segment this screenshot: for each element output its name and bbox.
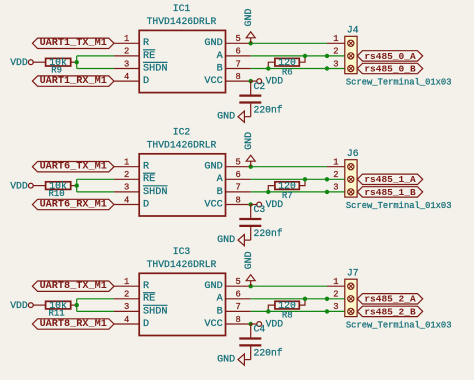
svg-text:SHDN: SHDN bbox=[143, 306, 167, 317]
connector J4 Screw_Terminal_01x03 bbox=[345, 24, 452, 87]
junction B at connector bbox=[325, 309, 329, 313]
svg-text:SHDN: SHDN bbox=[143, 63, 167, 74]
ground GND (capacitor C2) bbox=[217, 111, 251, 122]
pin 1 R of IC3 bbox=[114, 277, 149, 292]
svg-text:rs485_2_B: rs485_2_B bbox=[364, 306, 416, 317]
wire A net bbox=[251, 298, 345, 300]
svg-text:220nf: 220nf bbox=[254, 105, 283, 116]
svg-text:GND: GND bbox=[244, 8, 255, 26]
pin 1 of J7 bbox=[327, 277, 354, 289]
hierarchical label rs485_2_B bbox=[357, 306, 422, 317]
svg-text:D: D bbox=[143, 76, 149, 87]
svg-text:B: B bbox=[217, 187, 223, 198]
pin 6 A of IC2 bbox=[217, 170, 251, 185]
svg-text:RE: RE bbox=[143, 51, 155, 62]
svg-text:R7: R7 bbox=[282, 191, 293, 201]
wire junction vertical bbox=[76, 56, 78, 69]
ground GND (capacitor C3) bbox=[217, 235, 251, 246]
junction pullup node bbox=[75, 183, 79, 187]
junction A at connector bbox=[325, 54, 329, 58]
resistor R8 120 bbox=[268, 299, 305, 321]
connector J6 Screw_Terminal_01x03 bbox=[345, 148, 452, 211]
junction R6 right bbox=[303, 54, 307, 58]
svg-text:GND: GND bbox=[217, 354, 235, 365]
svg-text:IC1: IC1 bbox=[173, 3, 191, 14]
pin 5 GND of IC1 bbox=[204, 34, 250, 49]
svg-text:J6: J6 bbox=[347, 148, 359, 159]
svg-text:Screw_Terminal_01x03: Screw_Terminal_01x03 bbox=[346, 201, 452, 211]
wire VDD to R9 bbox=[33, 61, 46, 63]
pin 1 R of IC2 bbox=[114, 158, 149, 173]
svg-text:6: 6 bbox=[235, 47, 240, 57]
svg-text:UART6_TX_M1: UART6_TX_M1 bbox=[40, 162, 107, 173]
pin 3 of J7 bbox=[333, 302, 354, 314]
svg-text:THVD1426DRLR: THVD1426DRLR bbox=[147, 259, 217, 270]
pin 1 R of IC1 bbox=[114, 34, 149, 49]
svg-text:2: 2 bbox=[333, 170, 338, 180]
wire pin5 GND to J6 pin1 bbox=[251, 166, 327, 168]
svg-text:rs485_1_A: rs485_1_A bbox=[364, 174, 416, 185]
svg-text:B: B bbox=[217, 63, 223, 74]
junction VCC node bbox=[249, 79, 253, 83]
svg-text:B: B bbox=[217, 306, 223, 317]
pin 1 of J4 bbox=[327, 34, 354, 46]
svg-text:A: A bbox=[217, 174, 224, 185]
op-amp body IC2 THVD1426DRLR bbox=[139, 127, 225, 216]
svg-text:6: 6 bbox=[235, 170, 240, 180]
pin 6 A of IC3 bbox=[217, 290, 251, 305]
junction VCC node bbox=[249, 202, 253, 206]
wire junction vertical bbox=[76, 299, 78, 312]
svg-text:2: 2 bbox=[124, 170, 129, 180]
svg-text:1: 1 bbox=[333, 158, 338, 168]
svg-text:VCC: VCC bbox=[204, 199, 222, 210]
pin 3 SHDN of IC2 bbox=[114, 183, 168, 198]
power VDD (left, IC3 block) bbox=[10, 300, 33, 311]
wire to pin 2 RE bbox=[77, 178, 114, 180]
svg-text:R9: R9 bbox=[51, 66, 62, 76]
hierarchical label UART1_TX_M1 bbox=[32, 38, 114, 49]
svg-text:C2: C2 bbox=[254, 81, 266, 92]
svg-text:R: R bbox=[143, 38, 149, 49]
svg-text:4: 4 bbox=[124, 315, 129, 325]
svg-text:A: A bbox=[217, 294, 224, 305]
svg-text:1: 1 bbox=[124, 158, 129, 168]
resistor R9 10k bbox=[46, 57, 77, 75]
wire VDD to R10 bbox=[33, 185, 46, 187]
power VDD (pin 8 node) bbox=[251, 318, 284, 329]
svg-text:8: 8 bbox=[235, 315, 240, 325]
wire to pin 2 RE bbox=[77, 55, 114, 57]
wire to pin 2 RE bbox=[77, 298, 114, 300]
svg-text:220nf: 220nf bbox=[254, 228, 283, 239]
svg-text:rs485_1_B: rs485_1_B bbox=[364, 187, 416, 198]
junction pullup node bbox=[75, 60, 79, 64]
svg-text:8: 8 bbox=[235, 72, 240, 82]
svg-text:RE: RE bbox=[143, 174, 155, 185]
pin 3 SHDN of IC1 bbox=[114, 59, 168, 74]
svg-text:UART1_TX_M1: UART1_TX_M1 bbox=[40, 38, 107, 49]
capacitor C3 220nf bbox=[239, 204, 282, 240]
svg-text:VDD: VDD bbox=[266, 76, 284, 87]
resistor R10 10k bbox=[46, 181, 77, 199]
power VDD (left, IC1 block) bbox=[10, 57, 33, 68]
svg-text:2: 2 bbox=[333, 290, 338, 300]
svg-text:rs485_0_A: rs485_0_A bbox=[364, 51, 416, 62]
svg-text:VCC: VCC bbox=[204, 76, 222, 87]
svg-text:3: 3 bbox=[124, 59, 129, 69]
svg-text:GND: GND bbox=[244, 132, 255, 150]
pin 2 RE of IC1 bbox=[114, 47, 155, 62]
wire A net bbox=[251, 55, 345, 57]
pin 2 RE of IC2 bbox=[114, 170, 155, 185]
pin 3 SHDN of IC3 bbox=[114, 302, 168, 317]
ground GND (pin 5 node) bbox=[244, 251, 255, 288]
junction B at connector bbox=[325, 66, 329, 70]
svg-text:GND: GND bbox=[217, 112, 235, 123]
svg-text:UART8_RX_M1: UART8_RX_M1 bbox=[40, 319, 107, 330]
wire pin5 GND to J4 pin1 bbox=[251, 42, 327, 44]
pin 2 of J6 bbox=[333, 170, 354, 182]
svg-text:UART1_RX_M1: UART1_RX_M1 bbox=[40, 76, 107, 87]
svg-text:rs485_2_A: rs485_2_A bbox=[364, 294, 416, 305]
power VDD (pin 8 node) bbox=[251, 199, 284, 210]
svg-text:6: 6 bbox=[235, 290, 240, 300]
power VDD (pin 8 node) bbox=[251, 76, 284, 87]
svg-text:C4: C4 bbox=[254, 324, 266, 335]
svg-text:R: R bbox=[143, 281, 149, 292]
svg-text:R10: R10 bbox=[48, 189, 64, 199]
ground GND (pin 5 node) bbox=[244, 8, 255, 45]
resistor R11 10k bbox=[46, 300, 77, 318]
svg-text:J4: J4 bbox=[347, 24, 359, 35]
svg-text:VDD: VDD bbox=[10, 300, 28, 311]
junction R8 left bbox=[266, 309, 270, 313]
wire pin5 GND to J7 pin1 bbox=[251, 285, 327, 287]
svg-text:VDD: VDD bbox=[266, 318, 284, 329]
pin 1 of J6 bbox=[327, 158, 354, 170]
svg-text:4: 4 bbox=[124, 72, 129, 82]
wire junction vertical bbox=[76, 179, 78, 192]
hierarchical label UART8_RX_M1 bbox=[32, 319, 114, 330]
hierarchical label UART6_RX_M1 bbox=[32, 199, 114, 210]
hierarchical label rs485_1_A bbox=[357, 174, 422, 185]
svg-text:GND: GND bbox=[204, 281, 222, 292]
svg-text:GND: GND bbox=[244, 251, 255, 269]
svg-text:8: 8 bbox=[235, 195, 240, 205]
svg-text:rs485_0_B: rs485_0_B bbox=[364, 63, 416, 74]
pin 5 GND of IC2 bbox=[204, 158, 250, 173]
power VDD (left, IC2 block) bbox=[10, 180, 33, 191]
ground GND (pin 5 node) bbox=[244, 132, 255, 169]
resistor R6 120 bbox=[268, 56, 305, 78]
wire B net bbox=[251, 191, 345, 193]
pin 7 B of IC3 bbox=[217, 302, 251, 317]
svg-text:5: 5 bbox=[235, 158, 240, 168]
hierarchical label rs485_0_A bbox=[357, 51, 422, 62]
pin 8 VCC of IC2 bbox=[204, 195, 250, 210]
pin 6 A of IC1 bbox=[217, 47, 251, 62]
svg-text:Screw_Terminal_01x03: Screw_Terminal_01x03 bbox=[346, 321, 452, 331]
svg-text:C3: C3 bbox=[254, 204, 266, 215]
svg-text:IC2: IC2 bbox=[173, 127, 191, 138]
svg-text:D: D bbox=[143, 319, 149, 330]
pin 2 RE of IC3 bbox=[114, 290, 155, 305]
junction R7 right bbox=[303, 177, 307, 181]
pin 7 B of IC1 bbox=[217, 59, 251, 74]
resistor R7 120 bbox=[268, 179, 305, 201]
svg-text:5: 5 bbox=[235, 34, 240, 44]
svg-text:D: D bbox=[143, 199, 149, 210]
pin 7 B of IC2 bbox=[217, 183, 251, 198]
wire B net bbox=[251, 310, 345, 312]
svg-text:2: 2 bbox=[333, 47, 338, 57]
svg-text:220nf: 220nf bbox=[254, 347, 283, 358]
svg-text:7: 7 bbox=[235, 59, 240, 69]
svg-text:GND: GND bbox=[204, 38, 222, 49]
junction R7 left bbox=[266, 190, 270, 194]
svg-text:3: 3 bbox=[333, 302, 338, 312]
junction VCC node bbox=[249, 322, 253, 326]
svg-text:R11: R11 bbox=[48, 308, 64, 318]
svg-text:VCC: VCC bbox=[204, 319, 222, 330]
svg-text:IC3: IC3 bbox=[173, 246, 191, 257]
svg-text:7: 7 bbox=[235, 183, 240, 193]
pin 8 VCC of IC3 bbox=[204, 315, 250, 330]
wire to pin 3 SHDN bbox=[77, 191, 114, 193]
svg-text:THVD1426DRLR: THVD1426DRLR bbox=[147, 16, 217, 27]
svg-text:A: A bbox=[217, 51, 224, 62]
hierarchical label rs485_0_B bbox=[357, 63, 422, 74]
junction R8 right bbox=[303, 297, 307, 301]
junction A at connector bbox=[325, 297, 329, 301]
capacitor C2 220nf bbox=[239, 81, 282, 117]
pin 3 of J6 bbox=[333, 183, 354, 195]
hierarchical label UART8_TX_M1 bbox=[32, 281, 114, 292]
wire VDD to R11 bbox=[33, 304, 46, 306]
pin 4 D of IC2 bbox=[114, 195, 149, 210]
svg-text:SHDN: SHDN bbox=[143, 187, 167, 198]
connector J7 Screw_Terminal_01x03 bbox=[345, 267, 452, 330]
pin 4 D of IC1 bbox=[114, 72, 149, 87]
svg-text:3: 3 bbox=[333, 59, 338, 69]
hierarchical label rs485_2_A bbox=[357, 294, 422, 305]
svg-text:R6: R6 bbox=[282, 67, 293, 77]
svg-text:RE: RE bbox=[143, 294, 155, 305]
svg-text:3: 3 bbox=[124, 183, 129, 193]
svg-text:1: 1 bbox=[124, 277, 129, 287]
svg-text:VDD: VDD bbox=[10, 57, 28, 68]
svg-text:VDD: VDD bbox=[266, 199, 284, 210]
pin 2 of J7 bbox=[333, 290, 354, 302]
ground GND (capacitor C4) bbox=[217, 354, 251, 365]
capacitor C4 220nf bbox=[239, 324, 282, 360]
svg-text:J7: J7 bbox=[347, 267, 359, 278]
svg-text:R: R bbox=[143, 162, 149, 173]
svg-text:GND: GND bbox=[204, 162, 222, 173]
wire B net bbox=[251, 68, 345, 70]
svg-text:2: 2 bbox=[124, 290, 129, 300]
svg-text:R8: R8 bbox=[282, 310, 293, 320]
pin 8 VCC of IC1 bbox=[204, 72, 250, 87]
op-amp body IC1 THVD1426DRLR bbox=[139, 3, 225, 92]
svg-text:Screw_Terminal_01x03: Screw_Terminal_01x03 bbox=[346, 78, 452, 88]
pin 4 D of IC3 bbox=[114, 315, 149, 330]
svg-text:1: 1 bbox=[333, 34, 338, 44]
svg-text:UART8_TX_M1: UART8_TX_M1 bbox=[40, 281, 107, 292]
junction pullup node bbox=[75, 303, 79, 307]
pin 3 of J4 bbox=[333, 59, 354, 71]
junction A at connector bbox=[325, 177, 329, 181]
svg-text:4: 4 bbox=[124, 195, 129, 205]
svg-text:5: 5 bbox=[235, 277, 240, 287]
svg-text:THVD1426DRLR: THVD1426DRLR bbox=[147, 140, 217, 151]
pin 2 of J4 bbox=[333, 47, 354, 59]
svg-text:3: 3 bbox=[333, 183, 338, 193]
op-amp body IC3 THVD1426DRLR bbox=[139, 246, 225, 335]
svg-text:7: 7 bbox=[235, 302, 240, 312]
wire A net bbox=[251, 178, 345, 180]
wire to pin 3 SHDN bbox=[77, 68, 114, 70]
junction B at connector bbox=[325, 190, 329, 194]
hierarchical label UART1_RX_M1 bbox=[32, 76, 114, 87]
svg-text:3: 3 bbox=[124, 302, 129, 312]
svg-text:1: 1 bbox=[333, 277, 338, 287]
pin 5 GND of IC3 bbox=[204, 277, 250, 292]
svg-text:2: 2 bbox=[124, 47, 129, 57]
hierarchical label UART6_TX_M1 bbox=[32, 162, 114, 173]
svg-text:VDD: VDD bbox=[10, 180, 28, 191]
svg-text:GND: GND bbox=[217, 235, 235, 246]
hierarchical label rs485_1_B bbox=[357, 187, 422, 198]
svg-text:1: 1 bbox=[124, 34, 129, 44]
svg-text:UART6_RX_M1: UART6_RX_M1 bbox=[40, 199, 107, 210]
wire to pin 3 SHDN bbox=[77, 310, 114, 312]
junction R6 left bbox=[266, 66, 270, 70]
